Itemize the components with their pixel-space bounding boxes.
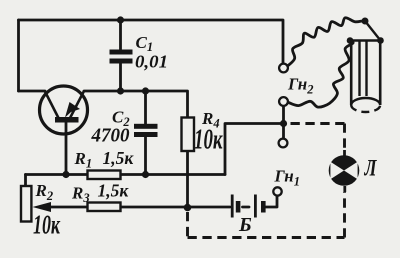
potentiometer R2 wiper arrow bbox=[33, 202, 52, 212]
node dot C2 top on collector rail bbox=[142, 87, 149, 94]
svg-text:1,5к: 1,5к bbox=[103, 148, 135, 168]
battery B cell2 short thick plate bbox=[261, 201, 266, 213]
headphone capsule left side bbox=[350, 41, 353, 106]
wire R2 top lead bbox=[24, 175, 27, 187]
headphone capsule right side bbox=[379, 41, 382, 106]
wire dashed bottom rail bbox=[188, 236, 345, 239]
capacitor C2 plates bbox=[134, 124, 158, 129]
jack Gn1 lower terminal circle bbox=[273, 187, 281, 195]
svg-text:1,5к: 1,5к bbox=[98, 181, 130, 201]
headphone terminal dot top bbox=[362, 18, 369, 25]
node dot base lead on middle rail bbox=[62, 171, 69, 178]
wire lamp top lead stub bbox=[343, 150, 346, 156]
wire transistor base lead bbox=[65, 123, 68, 175]
wire left vertical bbox=[17, 20, 20, 91]
svg-text:Б: Б bbox=[238, 214, 252, 236]
node junction of jack and dashed lamp branch bbox=[280, 120, 287, 127]
transistor collector diagonal bbox=[45, 92, 59, 119]
node dot C2 bottom on middle rail bbox=[142, 171, 149, 178]
svg-text:10к: 10к bbox=[33, 210, 61, 240]
wire dashed right vertical above lamp bbox=[343, 124, 346, 151]
node dot R4 bottom on lower rail bbox=[184, 204, 192, 212]
headphone capsule top bar bbox=[349, 39, 382, 42]
wire top rail from left corner to right corner down to jack Gn2 bbox=[19, 20, 284, 64]
jack Gn1 upper terminal circle bbox=[279, 139, 288, 148]
flexible cord from Gn2 top to capsule top dot bbox=[287, 18, 362, 67]
wire into transistor collector left bbox=[19, 90, 46, 93]
dashed wires bbox=[188, 124, 345, 238]
battery B cell1 long plate bbox=[231, 195, 234, 218]
wire battery middle link bbox=[243, 206, 250, 209]
wire lamp bottom lead stub bbox=[343, 186, 346, 192]
flexible cord from Gn2 bottom to capsule bar left dot bbox=[289, 41, 354, 108]
transistor VT1 circle bbox=[40, 86, 88, 134]
headphone capsule bottom rim upper arc bbox=[351, 98, 380, 105]
capacitor C1 plates bbox=[110, 50, 133, 55]
wire lower rail y=207 bbox=[49, 206, 230, 209]
transistor emitter diagonal bbox=[70, 91, 84, 118]
jack Gn2 upper terminal circle bbox=[279, 64, 288, 73]
headphone capsule inner line right bbox=[365, 41, 367, 97]
lamp L body bbox=[329, 155, 360, 186]
wire C2 bottom lead bbox=[144, 136, 147, 175]
svg-text:4700: 4700 bbox=[91, 125, 130, 147]
wire battery to Gn1 lower circle bbox=[266, 196, 278, 207]
jack Gn2 lower terminal circle bbox=[279, 97, 288, 106]
resistor R3 box bbox=[88, 203, 121, 212]
wire C2 top lead bbox=[144, 91, 147, 125]
svg-text:Л: Л bbox=[364, 156, 378, 181]
wire R4 bottom lead down to battery rail bbox=[186, 151, 189, 208]
headphone terminal dot bar right bbox=[377, 37, 384, 44]
transistor emitter arrow bbox=[65, 102, 80, 118]
resistor R1 box bbox=[88, 171, 121, 180]
headphone capsule bottom rim dashed front arc bbox=[351, 105, 380, 112]
lamp L white right wedge bbox=[344, 162, 358, 180]
wire dashed link to jack junction bbox=[286, 122, 345, 125]
node dot C1 bottom on collector rail bbox=[117, 87, 124, 94]
wire C1 top lead bbox=[119, 20, 122, 50]
battery B cell1 short thick plate bbox=[236, 201, 241, 213]
potentiometer R2 box bbox=[21, 186, 31, 222]
node dot on top rail at C1 bbox=[117, 16, 124, 23]
resistor R4 box bbox=[182, 118, 195, 152]
lamp L white left wedge bbox=[330, 162, 344, 180]
wire C1 bottom lead bbox=[119, 64, 122, 92]
wire dashed right vertical below lamp bbox=[343, 192, 346, 238]
wire dashed down from battery rail junction bbox=[186, 212, 189, 238]
headphone terminal dot bar left bbox=[347, 37, 354, 44]
svg-text:10к: 10к bbox=[194, 125, 223, 156]
wire transistor right to R4 top corner bbox=[84, 91, 188, 118]
wire middle rail up and right to jack junction bbox=[225, 124, 280, 175]
wire middle rail y=174.5 bbox=[26, 173, 226, 176]
wire jack vertical between Gn2 and Gn1 bbox=[282, 106, 285, 139]
svg-text:0,01: 0,01 bbox=[135, 52, 168, 72]
headphone terminal diagonal link bbox=[365, 21, 381, 41]
transistor base bar bbox=[55, 117, 79, 123]
battery B cell2 long plate bbox=[254, 195, 257, 218]
headphone capsule inner line left bbox=[358, 41, 360, 97]
